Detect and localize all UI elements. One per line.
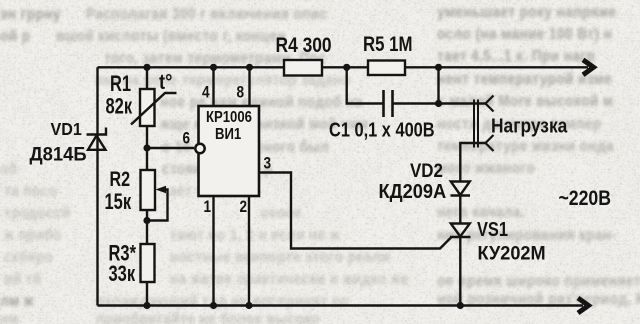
wire C1 branch left	[347, 67, 383, 103]
svg-text:КУ202М: КУ202М	[478, 242, 546, 264]
junction: top rail / R1 branch	[143, 64, 150, 71]
thyristor VS1	[450, 224, 471, 238]
svg-text:ВИ1: ВИ1	[215, 126, 241, 143]
wire pin 2	[248, 196, 250, 306]
svg-text:R4 300: R4 300	[276, 33, 332, 57]
wire C1 branch right	[393, 67, 439, 103]
svg-text:33к: 33к	[109, 262, 136, 287]
svg-text:Д814Б: Д814Б	[30, 143, 87, 164]
svg-text:t°: t°	[159, 71, 172, 95]
svg-text:КД209А: КД209А	[379, 180, 447, 203]
resistor R4	[284, 60, 322, 76]
arrow bottom rail	[578, 298, 589, 313]
load connector chevron top	[486, 96, 494, 112]
svg-text:КР1006: КР1006	[206, 109, 252, 126]
wire top rail middle segment	[322, 66, 368, 68]
svg-text:2: 2	[240, 198, 248, 217]
svg-text:4: 4	[202, 83, 210, 102]
wire to load top	[439, 102, 486, 104]
wire left vertical	[96, 67, 98, 305]
junction: bottom rail / R3	[143, 302, 150, 309]
wire top rail left segment	[98, 66, 285, 68]
wire pin 4	[212, 67, 214, 106]
junction: top rail / pin 8	[246, 64, 253, 71]
wire R3 to bottom	[146, 282, 148, 306]
wire VS1 to bottom rail	[459, 237, 461, 306]
resistor R3	[141, 244, 155, 282]
svg-text:82к: 82к	[106, 94, 133, 119]
wire R1 to R2	[146, 126, 148, 170]
resistor R2 (potentiometer)	[141, 170, 168, 221]
svg-text:15к: 15к	[105, 190, 132, 215]
wire R1 branch	[146, 67, 148, 89]
arrow top rail	[583, 60, 594, 75]
svg-text:VS1: VS1	[477, 217, 508, 240]
zener diode VD1	[87, 128, 107, 150]
svg-text:R5 1М: R5 1М	[363, 33, 412, 56]
svg-text:R1: R1	[110, 72, 131, 97]
wire VD2 to VS1	[459, 196, 461, 224]
wire R2 to R3	[146, 210, 148, 244]
junction: top rail / C1 branch right	[435, 64, 442, 71]
diode VD2	[451, 182, 471, 196]
pin 6 inversion circle	[195, 144, 204, 153]
wire pin 8	[248, 67, 250, 106]
svg-text:С1 0,1 х 400В: С1 0,1 х 400В	[329, 118, 435, 141]
svg-text:VD1: VD1	[51, 119, 82, 139]
capacitor C1	[384, 90, 393, 117]
wire pin 1	[212, 196, 214, 306]
junction: R2 wiper / R3 top	[143, 217, 150, 224]
junction: top rail / C1 branch left	[343, 64, 350, 71]
junction: bottom rail / pin 2	[245, 302, 252, 309]
wire load bottom	[460, 143, 485, 182]
junction: C1 lower wire / load wire	[435, 100, 442, 107]
svg-text:~220В: ~220В	[559, 187, 611, 211]
svg-text:VD2: VD2	[410, 159, 443, 181]
IC U1 KR1006VI1 box	[199, 106, 260, 196]
svg-text:6: 6	[183, 129, 191, 148]
resistor R5	[368, 61, 405, 76]
junction: top rail / pin 4	[210, 64, 217, 71]
wire pin 3 route	[259, 173, 452, 249]
svg-text:3: 3	[264, 154, 272, 173]
load connector chevron bottom	[486, 135, 494, 151]
load connector double lines	[474, 100, 478, 148]
wire top rail right segment with arrow	[405, 66, 588, 68]
svg-text:Нагрузка: Нагрузка	[491, 114, 568, 136]
junction: R1-R2 node / pin 6 wire	[143, 144, 150, 151]
resistor R1 (thermistor)	[131, 89, 177, 126]
wire to pin 6	[147, 147, 194, 149]
wire bottom rail with arrow	[98, 304, 584, 306]
svg-text:8: 8	[237, 83, 245, 102]
svg-text:1: 1	[204, 198, 212, 217]
junction: bottom rail / pin 1	[210, 302, 217, 309]
svg-text:R2: R2	[110, 168, 131, 192]
junction: bottom rail / VS1 cathode	[457, 302, 464, 309]
